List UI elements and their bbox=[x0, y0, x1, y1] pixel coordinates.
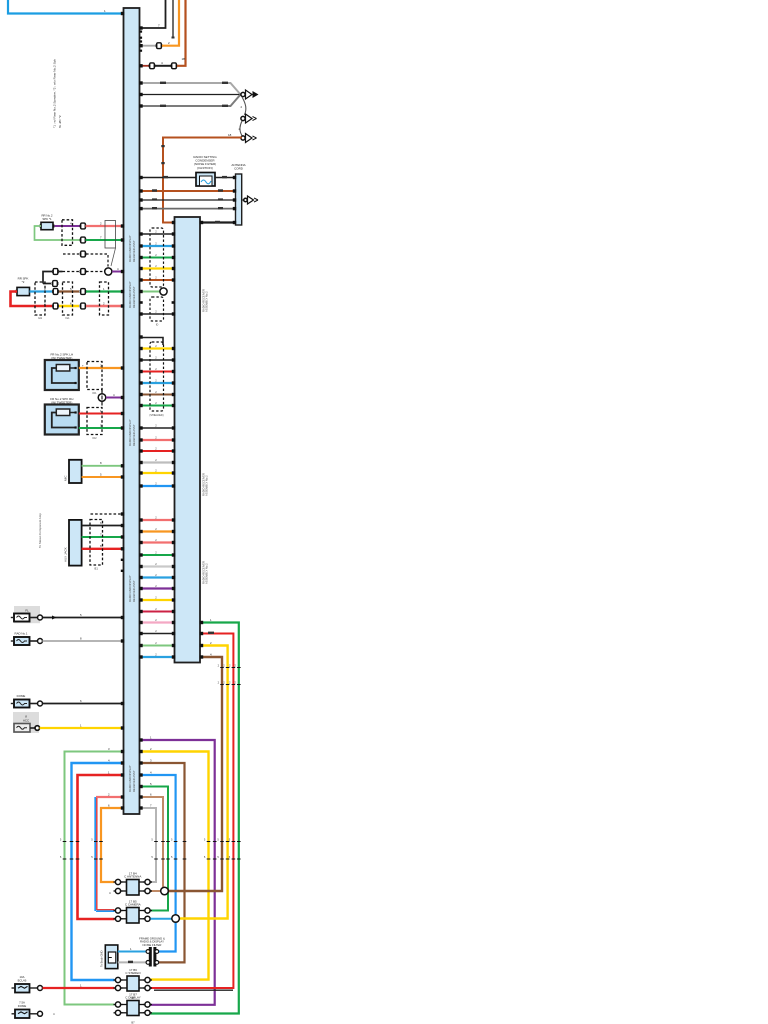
wire W32 black fuse F3 to bar U1 (y703.5) bbox=[43, 703, 124, 705]
svg-text:AUX JACK: AUX JACK bbox=[64, 547, 68, 562]
wire W45 gray loop bar U1 (y808) down to box B1 right bbox=[140, 808, 157, 882]
node N5 circle on blue vertical bbox=[172, 915, 180, 923]
shield drain thin line from S1 to node N2 bbox=[111, 248, 116, 266]
wire W2 black from bar U1 up to page top bbox=[140, 0, 166, 28]
svg-text:4: 4 bbox=[70, 221, 72, 225]
svg-text:2: 2 bbox=[155, 355, 157, 359]
wire W19 cyan-brown-green row into bar U1 (y291.5) bbox=[30, 290, 53, 292]
wire gray between bars (y566.5) bbox=[140, 565, 175, 567]
svg-text:RADIO AND DISPLAY: RADIO AND DISPLAY bbox=[128, 575, 132, 602]
component M1 (vertical box) with vertical label bbox=[69, 460, 82, 483]
svg-text:2: 2 bbox=[155, 367, 157, 371]
wire W33 yellow fuse F4 to bar U1 (y728) bbox=[40, 727, 124, 729]
wire yellow between bars (y268.5) bbox=[140, 267, 175, 269]
svg-text:2: 2 bbox=[155, 390, 157, 394]
svg-text:ASSEMBLY No.2: ASSEMBLY No.2 bbox=[205, 563, 209, 584]
svg-text:(W/ TWEETER): (W/ TWEETER) bbox=[51, 400, 72, 404]
svg-text:3: 3 bbox=[150, 758, 152, 762]
svg-text:6: 6 bbox=[80, 699, 82, 703]
svg-text:2: 2 bbox=[241, 105, 243, 109]
svg-text:2: 2 bbox=[155, 562, 157, 566]
svg-text:To J/C *2: To J/C *2 bbox=[58, 115, 62, 128]
svg-text:RAD No.1: RAD No.1 bbox=[14, 631, 27, 635]
svg-text:1: 1 bbox=[80, 723, 82, 727]
svg-text:ID1: ID1 bbox=[92, 391, 97, 395]
svg-text:2: 2 bbox=[229, 680, 231, 684]
svg-text:2: 2 bbox=[100, 221, 102, 225]
svg-text:2: 2 bbox=[155, 515, 157, 519]
svg-text:2: 2 bbox=[234, 680, 236, 684]
svg-text:RECEIVER ASSY: RECEIVER ASSY bbox=[132, 286, 136, 308]
wire W49 yellow loop bar U2 (y645.5) down to node N5 bbox=[180, 646, 228, 919]
pin stubs bar U1 left edge y560/571 bbox=[121, 559, 124, 561]
wire W14 dark gray bar U1 to thin bar J1 bbox=[140, 208, 236, 210]
svg-text:3: 3 bbox=[108, 747, 110, 751]
svg-text:2: 2 bbox=[155, 309, 157, 313]
svg-text:2: 2 bbox=[229, 663, 231, 667]
ECU bar U2 radio receiver assembly (second vertical connector bar) bbox=[175, 217, 201, 663]
fuse F1 (FL MAIN) with gray background bbox=[14, 606, 40, 623]
wire green between bars (y555) bbox=[140, 554, 175, 556]
svg-text:NOISE FILTER: NOISE FILTER bbox=[143, 943, 162, 947]
wire black between bars (y234) bbox=[140, 233, 175, 235]
wire black between bars (y314) bbox=[140, 313, 175, 315]
svg-text:4: 4 bbox=[150, 770, 152, 774]
wire salmon between bars (y440) bbox=[140, 439, 175, 441]
svg-text:4: 4 bbox=[113, 393, 115, 397]
svg-text:5: 5 bbox=[60, 837, 62, 841]
wire gray between bars (y462.5) bbox=[140, 461, 175, 463]
thin shield rectangle S1 around wires bbox=[105, 221, 116, 249]
dashed connector box D6 bbox=[87, 408, 102, 435]
dashed connector box D7 bbox=[90, 520, 103, 566]
svg-text:RECEIVER ASSY: RECEIVER ASSY bbox=[132, 240, 136, 262]
wire W41 brown loop bar U1 (y763) down to capacitor right bbox=[140, 763, 185, 962]
svg-text:7: 7 bbox=[100, 532, 102, 536]
wire blue between bars (y486) bbox=[140, 485, 175, 487]
wire red between bars (y371.5) bbox=[140, 371, 175, 373]
junction tick marks on right loop wires (rows y667/y684) bbox=[220, 667, 224, 669]
wire W16 purple from P1 through connector, salmon into bar U1 (y226) bbox=[55, 225, 81, 227]
svg-text:2: 2 bbox=[155, 458, 157, 462]
svg-text:ECU-B: ECU-B bbox=[18, 979, 27, 983]
svg-text:2: 2 bbox=[155, 550, 157, 554]
svg-text:*1 : w/ Rear No.2 Speaker. *2: *1 : w/ Rear No.2 Speaker. *2 : w/o Rear… bbox=[53, 59, 57, 128]
wire red between bars (y451) bbox=[140, 450, 175, 452]
wire W36 red thick loop bar U1 (y775) down to box B2 bbox=[78, 775, 124, 919]
wire W10 black bar U1 to noise filter N1 bbox=[140, 177, 197, 179]
dashed shield box DS3 between bars bbox=[150, 342, 164, 411]
svg-text:5: 5 bbox=[217, 855, 219, 859]
svg-text:2: 2 bbox=[155, 652, 157, 656]
svg-text:C STEREO: C STEREO bbox=[125, 971, 141, 975]
node N3 circle + purple pigtail to bar U1 (y397.5) bbox=[98, 394, 106, 402]
box B4 (bottom-most) with pins bbox=[127, 1001, 139, 1016]
wire W46 green loop bar U2 (y622.5) down to box B4 bottom right bbox=[151, 623, 239, 1014]
svg-text:To Body GND: To Body GND bbox=[100, 951, 104, 967]
connector bar J1 (thin vertical junction bar top right) bbox=[236, 174, 242, 225]
svg-text:FL: FL bbox=[25, 608, 29, 612]
wire W11 black noise filter N1 to thin bar J1 bbox=[215, 177, 236, 179]
svg-text:IE1: IE1 bbox=[94, 567, 98, 571]
svg-text:7: 7 bbox=[150, 803, 152, 807]
svg-text:2: 2 bbox=[155, 584, 157, 588]
wire W24 light green M1 to bar U1 (y465.8) bbox=[82, 465, 124, 467]
wire green between bars (y257.5) bbox=[140, 257, 175, 259]
dashed connector box D3 (middle column) bbox=[63, 282, 73, 315]
dashed shield box DS1 between bars bbox=[150, 228, 164, 287]
wire W17 light green loop from P1 left, green into bar U1 (y240) bbox=[35, 226, 81, 240]
shield dash-dot vertical through node N3 bbox=[101, 390, 103, 408]
svg-text:5: 5 bbox=[151, 837, 153, 841]
svg-text:MIC: MIC bbox=[64, 475, 68, 481]
dashed connector box D1 bbox=[62, 220, 73, 246]
node N6 circle bbox=[160, 288, 167, 295]
wire W18 black with connectors and dashed segment (y271.5) bbox=[43, 272, 52, 284]
svg-text:2: 2 bbox=[155, 527, 157, 531]
box B1 (antenna amplifier) with pins bbox=[127, 880, 140, 896]
fuse F5 (bottom, ECU-B) with ring bbox=[15, 984, 30, 993]
svg-text:4: 4 bbox=[109, 891, 111, 895]
svg-text:C CAMERA: C CAMERA bbox=[125, 903, 141, 907]
wire salmon between bars (y520) bbox=[140, 519, 175, 521]
svg-text:ID2: ID2 bbox=[92, 436, 97, 440]
pin stubs on bar U1 right edge top bbox=[140, 31, 143, 33]
svg-text:2: 2 bbox=[218, 680, 220, 684]
dashed connector box D5 bbox=[87, 362, 102, 390]
wire W40 yellow loop bar U1 (y751.5) down to box B3 right bbox=[140, 752, 209, 980]
wire black between bars (y428) bbox=[140, 427, 175, 429]
svg-text:5: 5 bbox=[229, 837, 231, 841]
svg-text:RECEIVER ASSY: RECEIVER ASSY bbox=[132, 424, 136, 446]
arrow A3 open bbox=[241, 136, 245, 140]
node N2 circle + purple pigtail into bar U1 (y271.5) bbox=[105, 268, 112, 275]
svg-text:5: 5 bbox=[204, 855, 206, 859]
wire W13 black bar U1 to thin bar J1 bbox=[140, 199, 236, 201]
svg-text:B7: B7 bbox=[131, 1021, 135, 1024]
svg-text:4: 4 bbox=[161, 61, 163, 65]
wire cyan between bars (y383) bbox=[140, 382, 175, 384]
wire W22 red speaker SP2 to bar U1 (y413.5) bbox=[79, 413, 124, 415]
wire black corner at y337 up to x163 bbox=[140, 338, 164, 346]
svg-text:ACC: ACC bbox=[23, 718, 29, 722]
svg-text:2: 2 bbox=[223, 663, 225, 667]
svg-text:5: 5 bbox=[217, 837, 219, 841]
component FG1 ground plate box (bottom left of capacitor) bbox=[105, 945, 118, 969]
arrow A4 open right of thin bar J1 bbox=[242, 199, 244, 201]
dashed drain wire from D1 to node N2 bbox=[63, 253, 79, 255]
svg-text:RADIO AND DISPLAY: RADIO AND DISPLAY bbox=[128, 235, 132, 262]
wire black between bars (y360) bbox=[140, 359, 175, 361]
svg-text:2: 2 bbox=[155, 275, 157, 279]
svg-text:C DISPLAY: C DISPLAY bbox=[125, 996, 140, 1000]
arrow A2 open bbox=[241, 116, 245, 120]
fuse F4 (ACC) with gray background bbox=[13, 712, 39, 733]
svg-text:8: 8 bbox=[80, 636, 82, 640]
svg-text:(SHIELDED): (SHIELDED) bbox=[149, 414, 163, 417]
fuse F6 (bottom, DOME) with ring bbox=[15, 1010, 30, 1019]
svg-text:IG1: IG1 bbox=[65, 316, 70, 320]
svg-text:ASSEMBLY No.2: ASSEMBLY No.2 bbox=[205, 291, 209, 312]
svg-text:4: 4 bbox=[117, 267, 119, 271]
wire W6 light gray antenna lead upper bbox=[140, 83, 241, 95]
wire purple between bars (y588.5) bbox=[140, 587, 175, 589]
svg-text:2: 2 bbox=[218, 663, 220, 667]
wire W31 gray fuse F2 to bar U1 (y641) bbox=[43, 640, 124, 642]
svg-text:*2: *2 bbox=[22, 280, 25, 284]
arrow A1 antenna (outline triangle + solid head) bbox=[241, 92, 245, 96]
component P2 small box bbox=[17, 287, 30, 295]
svg-text:7: 7 bbox=[100, 235, 102, 239]
wire W53 gray ground plate to capacitor (y962.4) bbox=[118, 961, 148, 963]
wire green between bars (y405.5) bbox=[140, 405, 175, 407]
wire W39 purple loop bar U1 (y740) down to box B4 right bbox=[140, 740, 215, 1005]
wire crimson between bars (y611.5) bbox=[140, 611, 175, 613]
svg-text:2: 2 bbox=[155, 264, 157, 268]
svg-text:DOME: DOME bbox=[18, 1004, 27, 1008]
wire pink between bars (y622.5) bbox=[140, 621, 175, 623]
wire cyan between bars (y246) bbox=[140, 245, 175, 247]
svg-text:5: 5 bbox=[229, 855, 231, 859]
wire black between bars (y633.5) bbox=[140, 633, 175, 635]
wire W28 green M2 to bar U1 (y537) bbox=[82, 536, 124, 538]
wire W29 red thick M2 to bar U1 (y548.8) bbox=[82, 548, 124, 550]
wire lt-green stub to node N6 (y291.5) bbox=[140, 291, 160, 293]
box B3 (stereo opening) with pins bbox=[127, 976, 139, 991]
junction tick marks rows y841/y859 across loop verticals bbox=[63, 841, 67, 843]
svg-text:DOME: DOME bbox=[17, 694, 26, 698]
wire W25 orange M1 to bar U1 (y477) bbox=[82, 476, 124, 478]
wire yellow between bars (y600) bbox=[140, 599, 175, 601]
dashed shield box DS2 between bars bbox=[150, 297, 164, 321]
speaker SP2 front No.2 speaker RH bbox=[45, 405, 79, 435]
pin stubs both bars (y302.5) bbox=[140, 301, 143, 304]
svg-text:2: 2 bbox=[223, 680, 225, 684]
wire W52 cyan ground plate to capacitor (y951.5) bbox=[118, 951, 148, 953]
fuse F3 (DOME) bbox=[14, 700, 30, 708]
curve C1 between arrow A1 and A2 bbox=[242, 97, 246, 115]
wire W5 dark-red / black / brick from page top into bar U1 bbox=[140, 65, 150, 67]
ECU bar U1 radio and display receiver assembly (main vertical connector bar) bbox=[124, 8, 140, 814]
svg-text:RADIO AND DISPLAY: RADIO AND DISPLAY bbox=[128, 281, 132, 308]
wire W23 green speaker SP2 to bar U1 (y428) bbox=[79, 427, 124, 429]
svg-text:+: + bbox=[82, 363, 84, 367]
svg-text:RECEIVER ASSY: RECEIVER ASSY bbox=[132, 770, 136, 792]
wire brown between bars (y394.5) bbox=[140, 394, 175, 396]
svg-text:1: 1 bbox=[130, 947, 132, 951]
svg-text:IH1: IH1 bbox=[38, 316, 43, 320]
svg-text:2: 2 bbox=[155, 595, 157, 599]
wire W1 blue from top-left to bar U1 pin bbox=[8, 0, 124, 14]
capacitor CN1 (noise filter condenser) bbox=[149, 947, 152, 967]
svg-text:6: 6 bbox=[150, 792, 152, 796]
svg-text:5: 5 bbox=[100, 472, 102, 476]
svg-text:RADIO AND DISPLAY: RADIO AND DISPLAY bbox=[128, 765, 132, 792]
svg-text:To Stereo Component Amp: To Stereo Component Amp bbox=[38, 513, 42, 548]
svg-text:5: 5 bbox=[60, 855, 62, 859]
svg-text:2: 2 bbox=[155, 573, 157, 577]
wire W38 orange loop bar U1 (y808) down to box B1 bbox=[101, 808, 124, 882]
node N4 circle right of box B1 bbox=[161, 887, 169, 895]
svg-text:SPK *1: SPK *1 bbox=[42, 217, 52, 221]
wire W21 orange speaker SP1 to bar U1 (y368) bbox=[79, 367, 124, 369]
svg-text:2: 2 bbox=[155, 629, 157, 633]
wire W50 brown loop bar U2 (y657) down to node N4 bbox=[169, 657, 223, 891]
svg-text:2: 2 bbox=[155, 253, 157, 257]
wire W9 brick from arrow A3 down into bar U2 bbox=[163, 138, 242, 223]
svg-text:2: 2 bbox=[155, 344, 157, 348]
wire W51 cyan box B2 right pin to node N5 bbox=[151, 918, 172, 920]
svg-text:5: 5 bbox=[91, 837, 93, 841]
wire W7 black antenna lead middle bbox=[140, 94, 241, 96]
svg-text:(W/ TWEETER): (W/ TWEETER) bbox=[51, 356, 72, 360]
wire W48 black under-run beside red (y990) bbox=[154, 989, 233, 991]
wire W8 dark gray antenna lead lower bbox=[140, 95, 241, 107]
svg-text:ASSEMBLY No.2: ASSEMBLY No.2 bbox=[205, 475, 209, 496]
svg-text:2: 2 bbox=[155, 378, 157, 382]
svg-text:5: 5 bbox=[204, 837, 206, 841]
wire lt-green between bars (y645.5) bbox=[140, 645, 175, 647]
svg-text:ID: ID bbox=[156, 323, 159, 326]
svg-text:5: 5 bbox=[171, 837, 173, 841]
svg-text:5: 5 bbox=[171, 855, 173, 859]
wire W42 blue loop bar U1 (y775) down through node N5 to capacitor bbox=[140, 775, 176, 952]
wire W27 black M2 to bar U1 (y525.5) bbox=[82, 525, 124, 527]
wire W12 brick bar U1 to thin bar J1 bbox=[140, 190, 236, 192]
wire W30 black fuse F1 to bar U1 (y617.5) bbox=[43, 617, 124, 619]
wire W47 red loop bar U2 (y633.5) down to box B3 bottom right bbox=[151, 634, 234, 989]
dashed connector box D2 (left column) bbox=[35, 282, 45, 315]
wire W20 thick red loop then yellow then salmon into bar U1 (y306) bbox=[11, 292, 53, 307]
svg-text:1: 1 bbox=[80, 983, 82, 987]
svg-text:5: 5 bbox=[151, 855, 153, 859]
svg-text:2: 2 bbox=[155, 401, 157, 405]
svg-text:[IGNITION]: [IGNITION] bbox=[198, 166, 213, 170]
wire brick between bars (y280) bbox=[140, 279, 175, 281]
svg-text:2: 2 bbox=[155, 538, 157, 542]
svg-text:2: 2 bbox=[155, 241, 157, 245]
wire W3 dark gray stub from page top bbox=[172, 0, 174, 38]
svg-text:2: 2 bbox=[234, 663, 236, 667]
svg-text:5: 5 bbox=[91, 855, 93, 859]
wire W4 gray stub + connector + orange from page top bbox=[140, 45, 157, 47]
svg-text:18: 18 bbox=[228, 133, 232, 137]
svg-text:RADIO AND DISPLAY: RADIO AND DISPLAY bbox=[128, 419, 132, 446]
wire W26 dashed drain from D7 to bar U1 (y514) bbox=[91, 513, 124, 515]
svg-text:1: 1 bbox=[210, 618, 212, 622]
noise filter N1 box bbox=[196, 173, 215, 187]
speaker SP1 front No.2 speaker LH bbox=[45, 360, 79, 390]
svg-text:1: 1 bbox=[103, 287, 105, 291]
wire W34 light green loop bar U1 (y751.5) down to box B4 bbox=[65, 752, 124, 1005]
wire W37 salmon entry bar U1 (y797) with blue-red pair vertical down to box B2 top bbox=[96, 796, 124, 798]
dash-dot shield vertical between D5 and D6 bbox=[101, 390, 103, 408]
wire W44 tan loop bar U1 (y797) down to node N4 bbox=[140, 797, 164, 891]
svg-text:2: 2 bbox=[108, 792, 110, 796]
wire orange between bars (y531.5) bbox=[140, 530, 175, 532]
wire cyan between bars (y577.5) bbox=[140, 576, 175, 578]
svg-text:2: 2 bbox=[155, 607, 157, 611]
svg-text:2: 2 bbox=[155, 229, 157, 233]
dashed connector box D4 (right column) bbox=[100, 282, 109, 315]
svg-text:2: 2 bbox=[155, 423, 157, 427]
svg-text:1B: 1B bbox=[182, 57, 186, 61]
svg-text:7: 7 bbox=[158, 24, 160, 28]
wire W43 green loop bar U1 (y786.5) down to box B2 right bbox=[140, 787, 169, 911]
svg-text:C ANTENNA: C ANTENNA bbox=[124, 875, 141, 879]
svg-text:RECEIVER ASSY: RECEIVER ASSY bbox=[132, 580, 136, 602]
svg-text:5: 5 bbox=[80, 613, 82, 617]
component M2 (vertical box) with vertical label bbox=[69, 520, 82, 566]
svg-text:1: 1 bbox=[150, 735, 152, 739]
box B2 (rear camera) with pins bbox=[127, 908, 140, 924]
svg-text:2: 2 bbox=[168, 41, 170, 45]
svg-text:5: 5 bbox=[70, 287, 72, 291]
svg-text:CORD: CORD bbox=[234, 167, 244, 171]
svg-text:6: 6 bbox=[108, 803, 110, 807]
wire W35 cyan loop bar U1 (y763) down to box B3 bbox=[72, 763, 124, 980]
svg-text:2: 2 bbox=[155, 481, 157, 485]
svg-text:2: 2 bbox=[155, 618, 157, 622]
wire salmon between bars (y542.5) bbox=[140, 541, 175, 543]
wire W54 red fuse F5 to box B3 (y988) bbox=[43, 987, 115, 989]
svg-text:2: 2 bbox=[155, 641, 157, 645]
wire cyan between bars (y657) bbox=[140, 656, 175, 658]
wire yellow between bars (y473) bbox=[140, 472, 175, 474]
wire yellow between bars (y348.5) bbox=[140, 347, 175, 349]
fuse F2 (RADIO No.1) bbox=[14, 637, 30, 645]
wire W15 black thick bar U2 top to thin bar J1 bbox=[200, 221, 236, 223]
component P1 small box bbox=[41, 222, 53, 229]
svg-text:2: 2 bbox=[155, 435, 157, 439]
svg-text:2: 2 bbox=[155, 468, 157, 472]
svg-text:8: 8 bbox=[100, 461, 102, 465]
curve C2 between arrow A2 and A3 bbox=[240, 121, 243, 137]
svg-text:5: 5 bbox=[150, 782, 152, 786]
svg-text:4: 4 bbox=[53, 1012, 55, 1016]
svg-text:2: 2 bbox=[155, 446, 157, 450]
svg-text:6: 6 bbox=[100, 521, 102, 525]
